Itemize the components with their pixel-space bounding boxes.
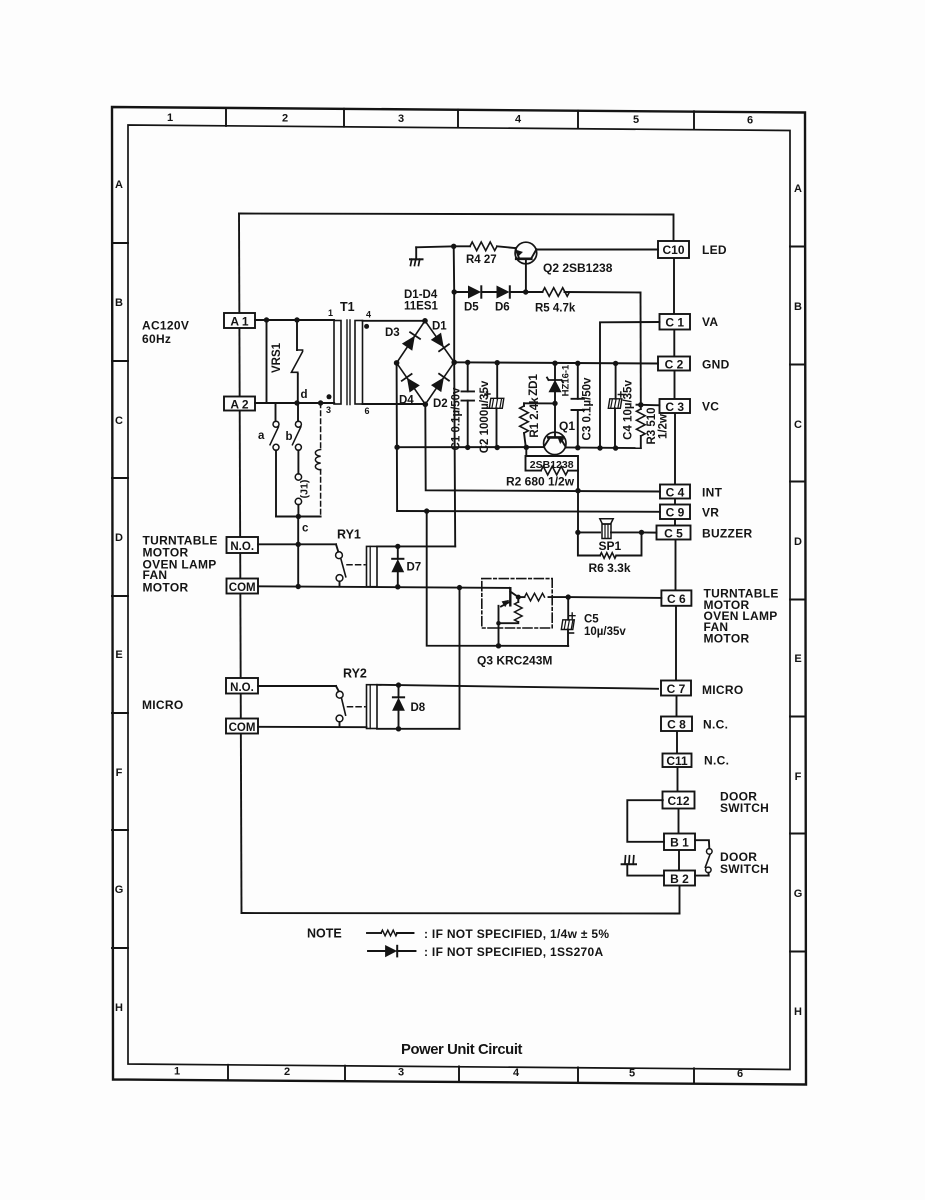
resistor R3 510 1/2w [637, 405, 670, 448]
zener diode ZD1 HZ16-1 [528, 361, 572, 404]
terminal C8 [661, 717, 692, 732]
svg-text:B: B [115, 297, 123, 309]
svg-text:C1 0.1µ/50v: C1 0.1µ/50v [451, 387, 463, 450]
svg-text:d: d [301, 389, 308, 401]
wire: switch block bottom [276, 516, 321, 518]
wire: chain C11 to C12 [677, 767, 679, 792]
svg-text:D: D [115, 532, 123, 544]
svg-text:5: 5 [629, 1068, 635, 1080]
terminal N.O. (RY1) [227, 537, 259, 553]
wire: GND rail from bridge to C2 [454, 362, 658, 363]
node relay line to RY2 vertical [457, 585, 462, 590]
node ZD1 bottom / Q1 base [552, 401, 557, 406]
wire: VA rail (right of Q1) [566, 446, 641, 449]
wire: chain B2 to bottom outline [679, 886, 681, 914]
svg-text:A: A [794, 183, 802, 195]
node c on N.O. line [296, 542, 301, 547]
wire: vertical from RY1 line down to RY2 coil bottom [459, 588, 461, 729]
svg-text:c: c [302, 523, 309, 535]
terminal N.O. (RY2) [226, 678, 258, 694]
svg-text:R2 680 1/2w: R2 680 1/2w [506, 475, 575, 489]
svg-text:A: A [115, 179, 123, 191]
terminal C3 [660, 399, 691, 414]
svg-text:1: 1 [167, 112, 173, 124]
svg-text:b: b [286, 431, 293, 443]
svg-text:E: E [794, 653, 801, 665]
svg-text:VA: VA [702, 315, 718, 329]
svg-text:COM: COM [229, 582, 256, 594]
node on VR line [424, 508, 429, 513]
svg-text:4: 4 [515, 114, 522, 126]
terminal B1 [664, 834, 695, 851]
terminal C4 [660, 485, 690, 500]
svg-text:A 2: A 2 [230, 398, 249, 412]
svg-text:INT: INT [702, 486, 723, 500]
diode D6 [495, 286, 510, 313]
svg-text:1: 1 [328, 308, 333, 318]
wire: to C5 terminal [642, 531, 657, 533]
chassis ground (top) [410, 247, 423, 265]
node c bottom on COM line [296, 584, 301, 589]
svg-text:3: 3 [326, 405, 331, 415]
wire: VR line [397, 510, 660, 513]
svg-text:D2: D2 [433, 398, 448, 410]
svg-text:SWITCH: SWITCH [720, 862, 769, 876]
capacitor C3 0.1u/50v [572, 361, 594, 451]
svg-text:1/2w: 1/2w [658, 414, 670, 439]
capacitor C5 10u/35v (electrolytic) [561, 597, 626, 646]
svg-text:6: 6 [737, 1068, 743, 1080]
svg-text:MOTOR: MOTOR [143, 581, 189, 595]
svg-text:Power Unit Circuit: Power Unit Circuit [401, 1042, 523, 1058]
wire: VC line to C3 terminal [637, 404, 660, 407]
varistor VRS1 [271, 320, 303, 403]
svg-text:VR: VR [702, 506, 719, 520]
relay RY1 switch [336, 544, 365, 586]
svg-text:R5 4.7k: R5 4.7k [535, 303, 576, 315]
svg-text:N.O.: N.O. [230, 682, 254, 694]
svg-text:SP1: SP1 [599, 539, 622, 553]
terminal C9 [660, 505, 690, 520]
wire: VA rail (bridge minus side) [397, 446, 544, 448]
wire: COM / relay coil bottom line to Q3 base [258, 586, 510, 588]
terminal C6 [661, 590, 691, 606]
svg-text:C10: C10 [662, 243, 684, 257]
svg-text:60Hz: 60Hz [142, 332, 171, 346]
wire: right terminal chain C10 to C1 [673, 259, 675, 315]
svg-text:NOTE: NOTE [307, 927, 342, 941]
wire: SP1 left lead [578, 531, 600, 533]
node c junction [296, 514, 301, 519]
wire: vertical ground-node to bridge plus and relay rail [454, 246, 456, 546]
svg-text:D5: D5 [464, 302, 479, 314]
relay RY1 coil [367, 546, 378, 586]
svg-text:H: H [115, 1002, 123, 1014]
svg-text:a: a [258, 430, 265, 442]
svg-text:HZ16-1: HZ16-1 [561, 364, 572, 396]
svg-text:B 1: B 1 [670, 836, 689, 850]
terminal C10 [658, 241, 689, 258]
terminal COM (RY1) [227, 579, 259, 595]
wire: RY1 coil top line to GND vertical [377, 545, 455, 547]
resistor R5 4.7k [535, 288, 641, 315]
svg-text:: IF NOT SPECIFIED, 1SS270A: : IF NOT SPECIFIED, 1SS270A [424, 945, 604, 959]
transformer T1 [326, 300, 371, 416]
bridge rectifier D1-D4 [394, 318, 457, 407]
capacitor C4 10u/35v (electrolytic) [608, 361, 634, 451]
svg-text:D7: D7 [407, 562, 422, 574]
svg-text:F: F [795, 771, 802, 783]
svg-text:D8: D8 [411, 702, 426, 714]
node: J1 dashed tap on d line [318, 400, 323, 405]
svg-text:4: 4 [366, 310, 371, 320]
wire: ground to R4 node [416, 246, 454, 247]
wire: A2 to transformer pin 3 (d line) [255, 402, 334, 404]
switch contact a [258, 403, 279, 517]
wire: RY2 coil bottom line [377, 728, 460, 730]
svg-text:Q2 2SB1238: Q2 2SB1238 [543, 261, 613, 275]
svg-text:C11: C11 [666, 754, 688, 768]
svg-text:LED: LED [702, 243, 727, 257]
wire: chain C9 to C5 [674, 519, 676, 526]
wire: Q2 collector down to D6/R5 line [525, 259, 527, 292]
svg-text:MICRO: MICRO [142, 698, 184, 712]
svg-text:R6 3.3k: R6 3.3k [589, 561, 631, 575]
wire: chain C6 to C7 [675, 606, 677, 681]
note diode symbol [368, 950, 386, 952]
svg-text:D3: D3 [385, 327, 400, 339]
svg-text:6: 6 [365, 406, 370, 416]
resistor R1 2.4k [520, 397, 541, 450]
svg-text:11ES1: 11ES1 [404, 301, 438, 313]
svg-text:Q1: Q1 [559, 419, 575, 433]
node VA vertical on VA rail [597, 445, 602, 450]
svg-text:4: 4 [513, 1067, 520, 1079]
wire: RY2 COM line [258, 726, 367, 728]
diode D5 [464, 286, 481, 313]
svg-text:2SB1238: 2SB1238 [530, 459, 574, 471]
svg-text:COM: COM [229, 722, 256, 734]
svg-text:VRS1: VRS1 [271, 342, 283, 373]
wire: chain C8 to C11 [676, 731, 678, 754]
wire: base node line (ZD1 bottom to R1) [524, 402, 555, 404]
transistor Q3 KRC243M (digital transistor in dash-dot box) [477, 579, 568, 668]
diode D4 (lower-left arm) [399, 374, 419, 407]
svg-text:1: 1 [174, 1066, 180, 1078]
terminal C5 [657, 526, 691, 541]
svg-text:ZD1: ZD1 [528, 374, 540, 396]
node d [294, 400, 299, 405]
wire: chain C3 to C4 [674, 413, 676, 485]
wire: main board outline left [239, 214, 242, 914]
svg-text:MOTOR: MOTOR [704, 632, 750, 646]
svg-text:C5: C5 [584, 614, 599, 626]
svg-text:D1-D4: D1-D4 [404, 289, 438, 301]
svg-text:D: D [794, 536, 802, 548]
svg-text:3: 3 [398, 113, 404, 125]
svg-text:N.C.: N.C. [703, 718, 728, 732]
wire: Q2 emitter to C10 [537, 249, 659, 251]
diode D7 [392, 544, 421, 590]
svg-text:C 1: C 1 [665, 316, 684, 330]
svg-text:C: C [115, 415, 123, 427]
wire: chain B1 to B2 [678, 850, 680, 871]
diode D2 (lower-right arm) [432, 374, 449, 410]
node on A1 line at VRS1 [294, 317, 299, 322]
node R5/R3 on VC line [638, 402, 643, 407]
diode D8 [393, 682, 426, 731]
svg-text:R4 27: R4 27 [466, 254, 497, 266]
svg-text:N.C.: N.C. [704, 754, 729, 768]
wire: bridge minus down to VR line [396, 363, 399, 511]
svg-text:D1: D1 [432, 321, 447, 333]
svg-text:GND: GND [702, 358, 730, 372]
node Q3 collector output [566, 594, 571, 599]
terminal A2 [224, 397, 255, 412]
wire: vertical from A1 line down to A2 line [266, 320, 268, 403]
svg-text:2: 2 [284, 1066, 290, 1078]
svg-text:N.O.: N.O. [230, 541, 254, 553]
wire: chain C5 to C6 [675, 540, 677, 591]
svg-text:C 6: C 6 [667, 592, 686, 606]
svg-text:2: 2 [282, 113, 288, 125]
buzzer SP1 [599, 519, 622, 553]
svg-text:D6: D6 [495, 302, 510, 314]
node on D5 line [452, 289, 457, 294]
wire: c junction down to N.O. and COM lines [297, 517, 299, 587]
wire: bridge bottom down then right to C4 INT [425, 404, 660, 491]
capacitor C1 0.1u/50v [451, 360, 475, 451]
svg-text:C 7: C 7 [667, 682, 686, 696]
wire: chain C2 to C3 [674, 371, 676, 400]
svg-text:C4 10µ/35v: C4 10µ/35v [623, 380, 635, 440]
svg-text:RY2: RY2 [343, 667, 367, 681]
svg-text:AC120V: AC120V [142, 319, 189, 333]
terminal COM (RY2) [226, 719, 258, 735]
svg-text:C 5: C 5 [664, 527, 683, 541]
svg-text:E: E [115, 649, 122, 661]
wire: A1 to transformer pin 1 [255, 319, 334, 321]
svg-text:C 3: C 3 [665, 400, 684, 414]
terminal B2 [664, 871, 695, 887]
resistor R4 27 [454, 242, 516, 266]
svg-text:MICRO: MICRO [702, 683, 744, 697]
wire: C1(VA) line [600, 322, 660, 448]
label D1-D4 11ES1 [404, 289, 438, 313]
svg-text:C 9: C 9 [666, 506, 685, 520]
note legend [307, 927, 609, 960]
wire: RY1 N.O. line [258, 543, 336, 545]
chassis ground (door switch) [622, 856, 636, 864]
wire: chain C4 to C9 [674, 499, 676, 505]
door switch contact B1-B2 [695, 840, 712, 875]
svg-text:G: G [794, 888, 803, 900]
wire: VR node down to Q3 emitter rail [427, 511, 569, 646]
svg-text:3: 3 [398, 1067, 404, 1079]
svg-text:RY1: RY1 [337, 528, 361, 542]
svg-text:6: 6 [747, 115, 753, 127]
svg-text:R1 2.4k: R1 2.4k [529, 397, 541, 438]
terminal C2 [658, 357, 690, 372]
wire: chain C7 to C8 [676, 696, 678, 716]
diode D3 (upper-left arm) [385, 327, 420, 350]
node bridge minus on VA rail [394, 445, 399, 450]
terminal C7 [661, 681, 691, 697]
svg-text:C12: C12 [667, 794, 689, 808]
svg-text:C2 1000µ/35v: C2 1000µ/35v [479, 380, 491, 453]
wire: B2 to chassis ground left link [627, 864, 664, 875]
svg-text:SWITCH: SWITCH [720, 801, 769, 815]
terminal C12 [663, 792, 695, 809]
svg-text:A 1: A 1 [230, 315, 249, 329]
node at R4/ground [451, 244, 456, 249]
node Q2 collector on D6 line [523, 289, 528, 294]
svg-text:H: H [794, 1006, 802, 1018]
svg-text:5: 5 [633, 114, 639, 126]
node SP1 right [639, 530, 644, 535]
svg-text:BUZZER: BUZZER [702, 527, 752, 541]
switch contact b [286, 403, 302, 474]
wire: secondary pin6 to bridge bottom [363, 403, 426, 405]
node SP1 left [575, 530, 580, 535]
svg-text:C: C [794, 419, 802, 431]
svg-text:Q3 KRC243M: Q3 KRC243M [477, 654, 552, 668]
wire: RY2 N.O. line [258, 685, 336, 687]
terminal C1 [660, 314, 691, 330]
relay RY2 coil [367, 685, 378, 729]
wire: D5/D6 line [454, 291, 542, 293]
svg-text:C 2: C 2 [665, 358, 684, 372]
svg-text:B 2: B 2 [670, 872, 689, 886]
wire: R5 corner down to VC line [640, 293, 642, 405]
relay RY2 switch [336, 686, 365, 727]
right side terminal name labels [702, 243, 779, 876]
svg-text:(J1): (J1) [299, 480, 311, 499]
resistor R2 680 1/2w with 2SB1238 label box [506, 447, 581, 493]
svg-text:10µ/35v: 10µ/35v [584, 626, 626, 638]
note resistor symbol [367, 932, 381, 934]
capacitor C2 1000u/35v (electrolytic) [479, 360, 504, 453]
svg-text:G: G [115, 884, 124, 896]
terminal A1 [224, 313, 255, 329]
wire: SP1 right lead [611, 531, 642, 533]
svg-text:: IF NOT SPECIFIED, 1/4w ± 5%: : IF NOT SPECIFIED, 1/4w ± 5% [424, 927, 609, 941]
svg-text:C 4: C 4 [666, 486, 685, 500]
transistor Q2 2SB1238 [515, 242, 613, 275]
wire: C12 to B1 left link [627, 800, 664, 842]
svg-text:R3 510: R3 510 [646, 407, 658, 444]
wire: chain C1 to C2 [673, 330, 675, 357]
wire: chain C12 to B1 [678, 809, 680, 834]
wire: secondary pin4 to bridge top [363, 320, 426, 322]
transistor Q1 2SB1238 [544, 403, 576, 454]
left side labels [142, 319, 218, 713]
svg-text:T1: T1 [340, 300, 355, 314]
svg-text:C3 0.1µ/50v: C3 0.1µ/50v [582, 377, 594, 440]
resistor R6 3.3k (parallel loop) [578, 532, 642, 575]
wire: main board outline bottom [242, 912, 680, 915]
svg-text:D4: D4 [399, 395, 414, 407]
svg-text:B: B [794, 301, 802, 313]
wire: Q3 output to C6 terminal [568, 596, 661, 599]
svg-text:C 8: C 8 [667, 718, 686, 732]
jumper J1 open contacts c [295, 474, 310, 535]
dashed jumper path with coil [315, 403, 320, 517]
svg-text:VC: VC [702, 400, 719, 414]
buzzer drive vertical from R2 node to SP1 [577, 491, 579, 533]
svg-text:F: F [116, 767, 123, 779]
diode D1 (upper-right arm) [432, 321, 449, 352]
terminal C11 [663, 754, 692, 769]
node on A1 line [264, 317, 269, 322]
wire: RY2 coil top line to C7 MICRO [377, 685, 658, 689]
wire: main board outline top [239, 214, 674, 242]
